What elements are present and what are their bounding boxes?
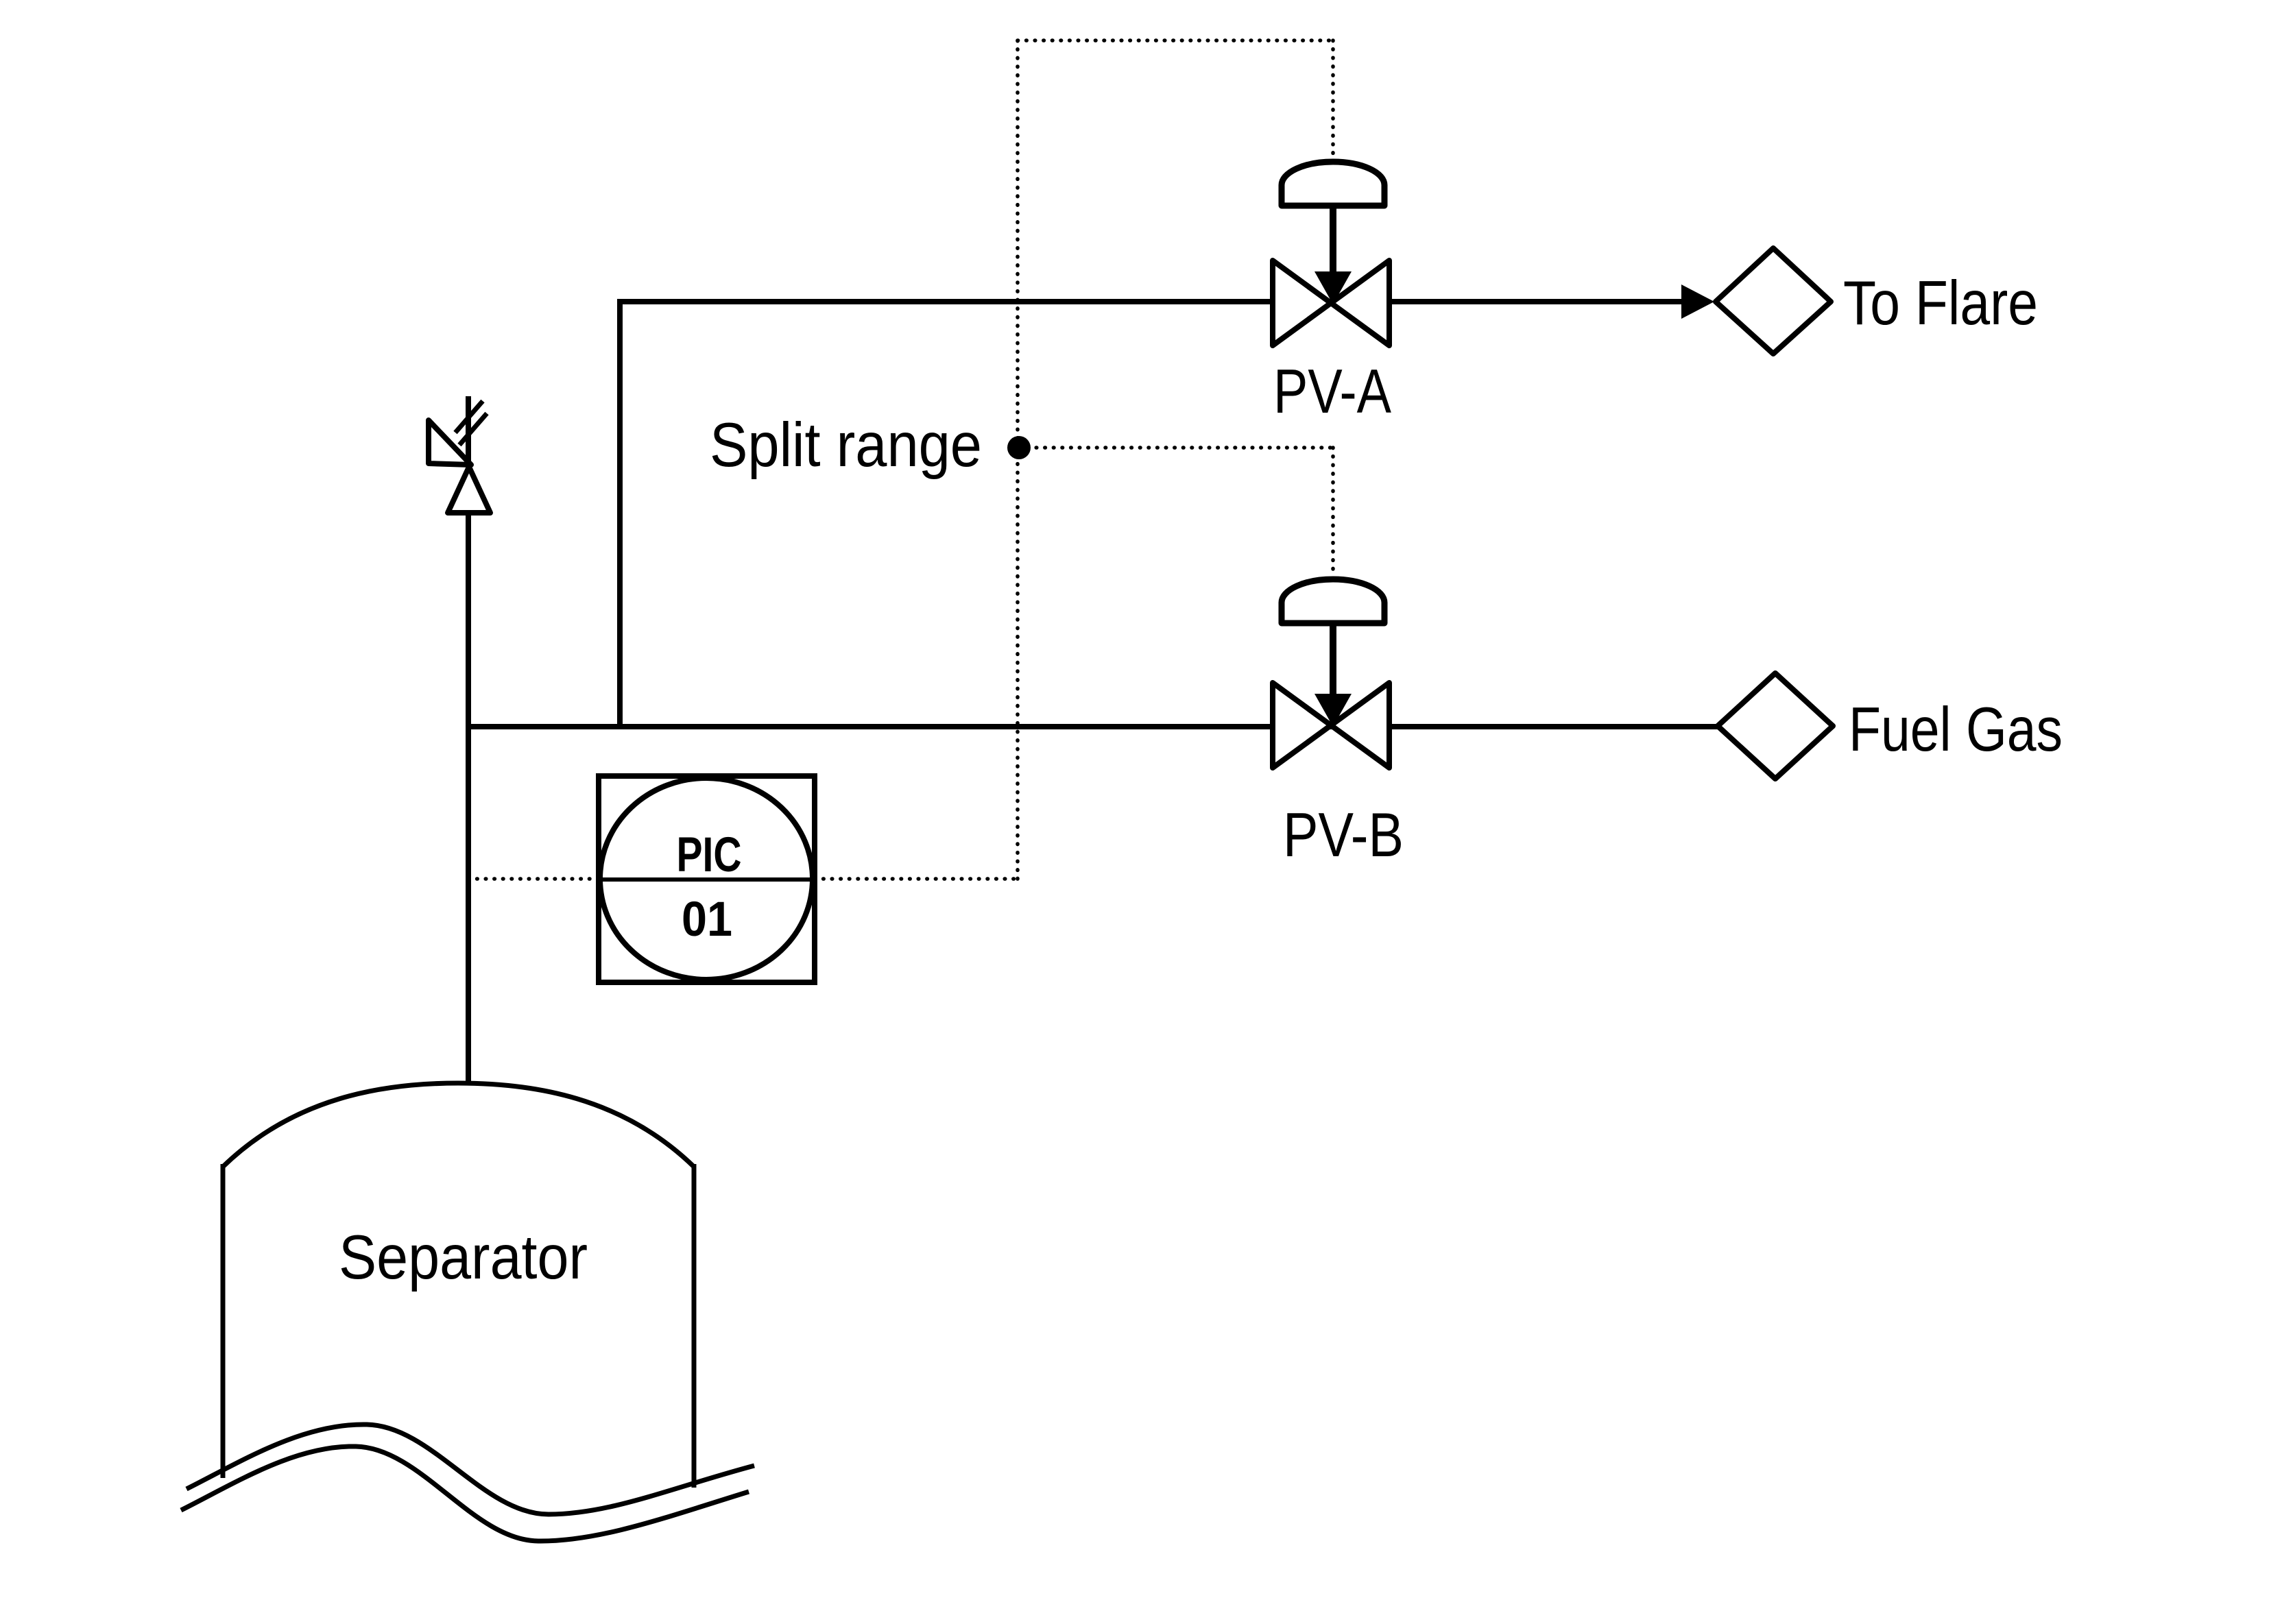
signal line: PIC output to split (dotted) — [815, 877, 1018, 881]
svg-text:Fuel Gas: Fuel Gas — [1849, 695, 2063, 764]
svg-text:Separator: Separator — [339, 1223, 588, 1292]
wire: fuel gas header (horizontal) — [468, 724, 1718, 729]
svg-text:PV-A: PV-A — [1273, 357, 1391, 426]
control valve PV-B stem arrowhead — [1314, 694, 1352, 727]
relief vent valve: lower up-pointing triangle — [448, 467, 490, 513]
signal line: dotted run to PV-B — [1019, 446, 1333, 450]
signal line: process tap to PIC (dotted) — [468, 877, 599, 881]
instrument PIC-01 midline — [601, 877, 813, 882]
separator vessel left wall — [221, 1164, 226, 1478]
off-page connector diamond To Flare — [1716, 248, 1831, 354]
svg-text:To Flare: To Flare — [1843, 269, 2038, 338]
signal line: dotted drop to PV-B actuator — [1331, 448, 1335, 575]
instrument PIC-01 square — [599, 776, 815, 982]
svg-text:01: 01 — [682, 893, 732, 947]
wire: gas line to flare (horizontal) — [620, 299, 1684, 304]
flow arrowhead into flare connector — [1681, 284, 1714, 319]
separator vessel right wall — [692, 1164, 697, 1488]
vent hash slash 1 — [455, 401, 483, 433]
control valve PV-B actuator diaphragm — [1282, 579, 1384, 623]
control valve PV-A actuator diaphragm — [1282, 162, 1384, 206]
control valve PV-A body — [1273, 260, 1389, 346]
signal line: vertical dotted riser — [1016, 40, 1020, 879]
signal line: top dotted run to PV-A — [1018, 38, 1333, 43]
control valve PV-B actuator stem — [1330, 625, 1336, 696]
svg-text:PIC: PIC — [677, 828, 742, 882]
control valve PV-A stem arrowhead — [1314, 271, 1352, 304]
separator vessel dome — [223, 1083, 694, 1167]
vent hash slash 2 — [459, 413, 487, 445]
svg-text:Split range: Split range — [710, 411, 982, 480]
control valve PV-B body — [1273, 683, 1389, 768]
wire: vent stub above relief valve — [466, 396, 471, 467]
control valve PV-A actuator stem — [1330, 207, 1336, 274]
wire: riser from fuel gas header up to flare line — [617, 299, 623, 727]
relief vent valve: upper flag triangle — [429, 420, 471, 465]
svg-text:PV-B: PV-B — [1283, 801, 1404, 870]
off-page connector diamond Fuel Gas — [1718, 673, 1833, 779]
wire: vertical line from separator top to vent valve — [466, 512, 471, 1084]
instrument PIC-01 circle — [600, 778, 813, 980]
signal line: dotted drop to PV-A actuator — [1331, 40, 1335, 158]
separator break wave lower — [181, 1446, 749, 1541]
separator break wave upper — [187, 1425, 754, 1514]
node: split range junction dot — [1007, 436, 1031, 459]
